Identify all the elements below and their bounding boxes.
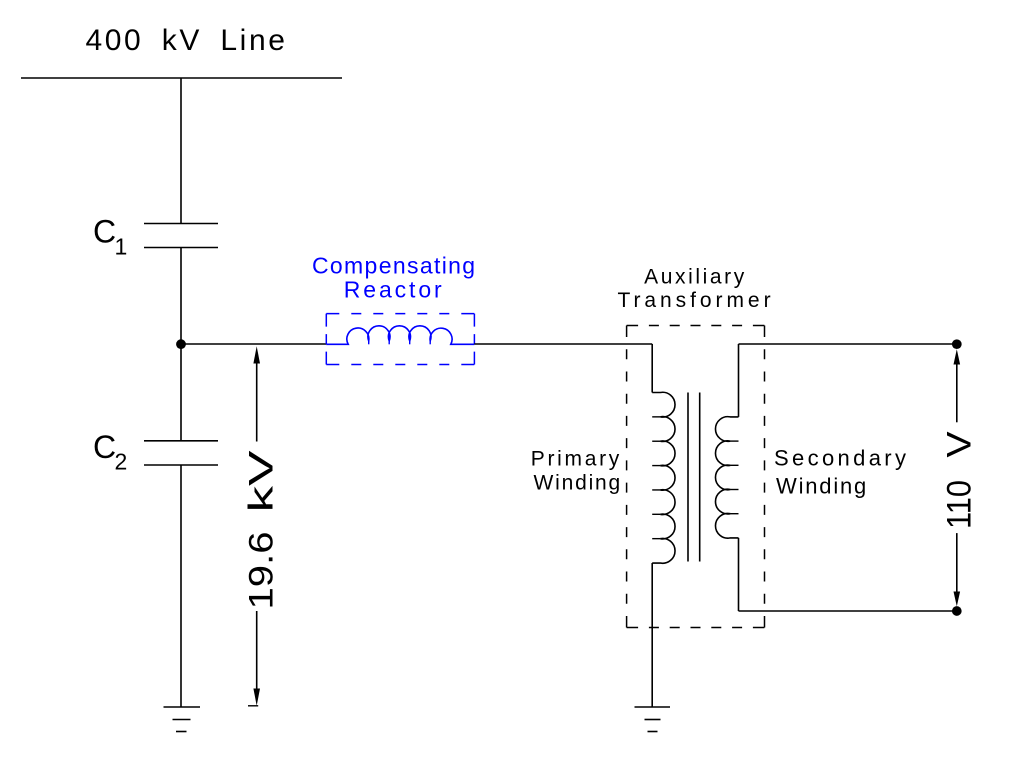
- svg-text:Transformer: Transformer: [617, 289, 774, 312]
- reactor enclosure (blue dashed box): [326, 314, 474, 365]
- wire: secondary bottom to output terminal: [739, 610, 957, 612]
- svg-text:Reactor: Reactor: [344, 276, 445, 302]
- label: Auxiliary Transformer: [617, 266, 774, 313]
- dimension arrow 19.6 kV (top arrowhead): [253, 346, 260, 363]
- inductor L1 (compensating reactor coil): [326, 326, 474, 344]
- svg-text:110: 110: [941, 480, 979, 529]
- svg-text:Winding: Winding: [534, 472, 622, 495]
- svg-text:Secondary: Secondary: [774, 446, 909, 471]
- wire: secondary top to output terminal: [739, 343, 957, 345]
- transformer secondary winding coil: [715, 417, 738, 539]
- capacitor C1: [144, 224, 218, 248]
- dimension arrow 110 V (bottom arrowhead): [954, 592, 961, 607]
- svg-text:kV: kV: [243, 450, 281, 512]
- transformer core: [688, 393, 700, 562]
- label C1: [93, 214, 127, 260]
- transformer primary winding coil: [652, 392, 675, 563]
- output terminal dot (top): [952, 339, 962, 349]
- label C2: [93, 429, 127, 475]
- svg-text:Compensating: Compensating: [312, 252, 477, 278]
- wire: C2 bottom to ground: [180, 465, 182, 707]
- svg-text:1: 1: [115, 234, 128, 260]
- wire: busbar down to C1 top: [180, 78, 182, 224]
- dimension line 19.6 kV (lower segment): [256, 611, 258, 689]
- wire: node A to compensating reactor: [181, 343, 326, 345]
- svg-text:2: 2: [115, 449, 128, 475]
- svg-text:Auxiliary: Auxiliary: [644, 266, 747, 289]
- capacitor C2: [144, 441, 218, 465]
- svg-text:Primary: Primary: [531, 448, 622, 471]
- wire: 400 kV line busbar: [21, 77, 342, 79]
- wire: primary bottom to ground: [651, 563, 653, 707]
- dimension line 110 V (lower segment): [956, 533, 958, 591]
- value label 110 V (rotated): [941, 431, 979, 529]
- dimension arrow 19.6 kV (bottom arrowhead): [253, 689, 260, 706]
- transformer enclosure (black dashed box): [627, 326, 765, 628]
- dimension line 110 V (upper segment): [956, 365, 958, 423]
- label: 400 kV Line (net name): [85, 24, 287, 57]
- ground (transformer primary): [635, 707, 671, 732]
- wire: C1 bottom to node A: [180, 248, 182, 345]
- output terminal dot (bottom): [952, 606, 962, 616]
- wire: down into primary winding: [651, 344, 653, 393]
- dimension arrow 110 V (top arrowhead): [954, 349, 961, 364]
- wire: node A down to C2 top: [180, 344, 182, 441]
- wire: secondary top lead: [738, 344, 740, 417]
- extension line tick (bottom of 19.6 kV dimension): [248, 705, 258, 707]
- label: Secondary Winding: [774, 446, 909, 499]
- svg-text:C: C: [93, 214, 116, 250]
- dimension line 19.6 kV (upper segment): [256, 364, 258, 442]
- svg-text:C: C: [93, 429, 116, 465]
- wire: secondary bottom lead: [738, 538, 740, 611]
- svg-text:Winding: Winding: [776, 474, 868, 499]
- ground (below C2): [164, 707, 201, 732]
- label: Compensating Reactor: [312, 252, 477, 302]
- svg-text:400 kV Line: 400 kV Line: [85, 24, 287, 57]
- node A (junction dot): [176, 339, 186, 349]
- svg-text:19.6: 19.6: [243, 532, 281, 610]
- svg-text:V: V: [941, 431, 979, 457]
- value label 19.6 kV (rotated): [243, 450, 281, 609]
- wire: reactor to transformer primary: [474, 343, 652, 345]
- label: Primary Winding: [531, 448, 622, 495]
